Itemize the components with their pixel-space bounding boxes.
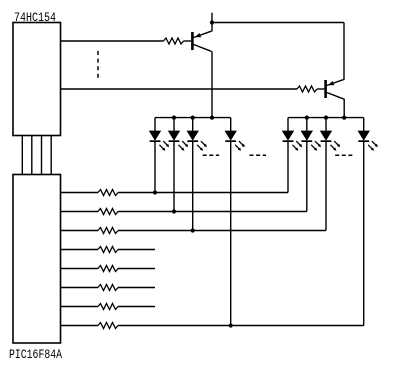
wire R6 to LED column: [118, 287, 155, 289]
wire bus2 U1-U2: [31, 136, 33, 175]
resistor R6: [98, 285, 118, 291]
resistor R3: [98, 228, 118, 234]
wire U2 RB6 to R7: [61, 306, 99, 308]
wire U2 RB2 to R3: [61, 230, 99, 232]
LED D8: [358, 118, 378, 326]
wire U2 RB1 to R2: [61, 211, 99, 213]
dashed continuation (more LEDs group2): [335, 154, 352, 156]
resistor R10 (T2 base): [297, 86, 317, 92]
LED D5: [283, 118, 303, 193]
wire R2 to LED column: [118, 211, 307, 213]
junction wire2 / D2 cathode: [172, 209, 176, 213]
junction wire1 / D1 cathode: [153, 190, 157, 194]
LED D6: [301, 118, 321, 212]
wire bus4 U1-U2: [50, 136, 52, 175]
wire U2 RB3 to R4: [61, 249, 99, 251]
wire R10 to Q2 base: [317, 88, 324, 90]
LED D7: [321, 118, 341, 231]
junction group1 rail / LED3: [191, 116, 195, 120]
LED D3: [187, 118, 207, 231]
dashed continuation (more U1 outputs): [97, 51, 99, 79]
junction wire8 / D4 cathode: [229, 323, 233, 327]
resistor R8: [98, 323, 118, 329]
junction wire3 / D3 cathode: [191, 228, 195, 232]
IC U2 PIC16F84A box: [13, 175, 61, 344]
wire U1 out2 to R10: [61, 88, 298, 90]
node Vcc junction at Q1 emitter: [210, 20, 214, 24]
wire bus1 U1-U2: [21, 136, 23, 175]
svg-text:74HC154: 74HC154: [14, 10, 56, 25]
wire Q1 collector down to group1 rail: [211, 51, 213, 117]
wire R3 to LED column: [118, 230, 326, 232]
wire R7 to LED column: [118, 306, 155, 308]
resistor R2: [98, 209, 118, 215]
LED D2: [169, 118, 189, 212]
junction group2 rail / LED7: [324, 116, 328, 120]
wire R9 to Q1 base: [184, 40, 192, 42]
wire Q2 collector down to group2 rail: [343, 99, 345, 118]
wire U2 RB0 to R1: [61, 192, 99, 194]
transistor Q1 (PNP): [191, 31, 211, 51]
LED D4: [225, 118, 245, 326]
junction group1 rail / LED2: [172, 116, 176, 120]
resistor R1: [98, 190, 118, 196]
wire U1 out1 to R9: [61, 40, 164, 42]
junction group1 rail / Q1 collector: [210, 116, 214, 120]
wire Vcc rail down to Q2 emitter: [343, 23, 345, 80]
dashed continuation (after D4): [250, 154, 267, 156]
LED D1: [150, 118, 170, 193]
resistor R4: [98, 247, 118, 253]
resistor R5: [98, 266, 118, 272]
wire R5 to LED column: [118, 268, 155, 270]
resistor R7: [98, 304, 118, 310]
wire U2 RB4 to R5: [61, 268, 99, 270]
wire R8 to LED column: [118, 325, 364, 327]
wire R1 to LED column: [118, 192, 288, 194]
junction group2 rail / LED6: [305, 116, 309, 120]
wire Vcc rail to Q2: [212, 22, 344, 24]
junction group2 rail / Q2 collector: [342, 116, 346, 120]
IC U1 74HC154 box: [13, 23, 61, 136]
wire Q1 emitter vertical + Vcc stub: [211, 13, 213, 32]
wire U2 RB5 to R6: [61, 287, 99, 289]
wire LED group1 anode rail: [155, 117, 231, 119]
wire U2 RB7 to R8: [61, 325, 99, 327]
wire R4 to LED column: [118, 249, 155, 251]
resistor R9 (T1 base): [164, 38, 184, 44]
transistor Q2 (PNP): [324, 79, 344, 99]
wire LED group2 anode rail: [288, 117, 364, 119]
wire bus3 U1-U2: [41, 136, 43, 175]
svg-text:PIC16F84A: PIC16F84A: [9, 347, 62, 362]
dashed continuation (more LEDs group1): [203, 154, 219, 156]
